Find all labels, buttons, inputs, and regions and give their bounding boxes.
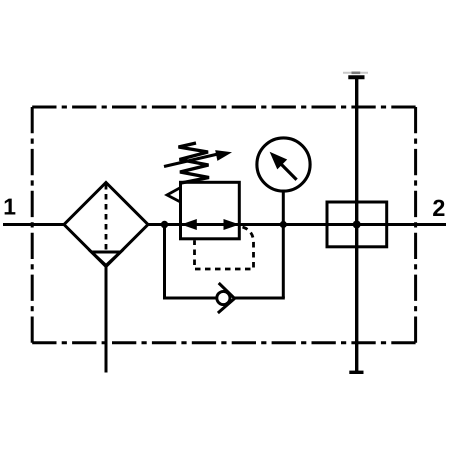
vent cap top bar <box>348 75 364 79</box>
regulator adjustment spring <box>179 143 210 183</box>
regulator flow arrow right <box>224 219 240 230</box>
enclosure boundary left edge (dash-dot) <box>31 107 34 343</box>
enclosure boundary right edge (dash-dot) <box>414 107 417 343</box>
vent grey mark (dark) <box>352 72 361 75</box>
water separator triangle <box>92 252 121 266</box>
enclosure boundary bottom edge (dash-dot) <box>32 341 415 344</box>
vent grey mark (light) <box>343 72 368 74</box>
main wire (port 1 to port 2 through regulator and block) <box>148 223 446 226</box>
check valve seat <box>218 283 235 313</box>
filter element line (dashed) <box>105 184 108 251</box>
port 1 label <box>5 199 16 215</box>
gauge needle <box>281 164 297 180</box>
enclosure boundary top edge (dash-dot) <box>32 106 415 109</box>
gauge stem wire <box>282 191 285 225</box>
adjustment arrow through spring <box>164 154 219 167</box>
node C (junction dot in block) <box>353 221 361 229</box>
port 2 label <box>433 200 444 216</box>
port 1 wire <box>3 223 64 226</box>
bypass wire up-right <box>282 225 285 299</box>
regulator relief triangle (left port) <box>167 188 180 202</box>
bypass wire bottom-left <box>163 297 218 300</box>
pilot line (dashed feedback loop) <box>195 227 254 269</box>
distribution block B1 (right box) <box>327 202 387 247</box>
regulator flow arrow left <box>181 219 197 230</box>
check valve V1 (ball) <box>217 291 230 304</box>
filter drain wire <box>105 266 108 373</box>
block vertical wire (vent to plug) <box>355 79 358 371</box>
pressure gauge G1 (dial) <box>257 138 310 191</box>
bypass wire bottom-right <box>235 297 285 300</box>
regulator R1 (body box) <box>181 182 240 239</box>
node B (junction dot gauge stem) <box>280 221 287 228</box>
plug bottom bar <box>349 371 363 374</box>
filter F1 (diamond body) <box>64 183 148 267</box>
bypass wire down-left <box>163 225 166 299</box>
node A (junction dot left) <box>161 221 168 228</box>
